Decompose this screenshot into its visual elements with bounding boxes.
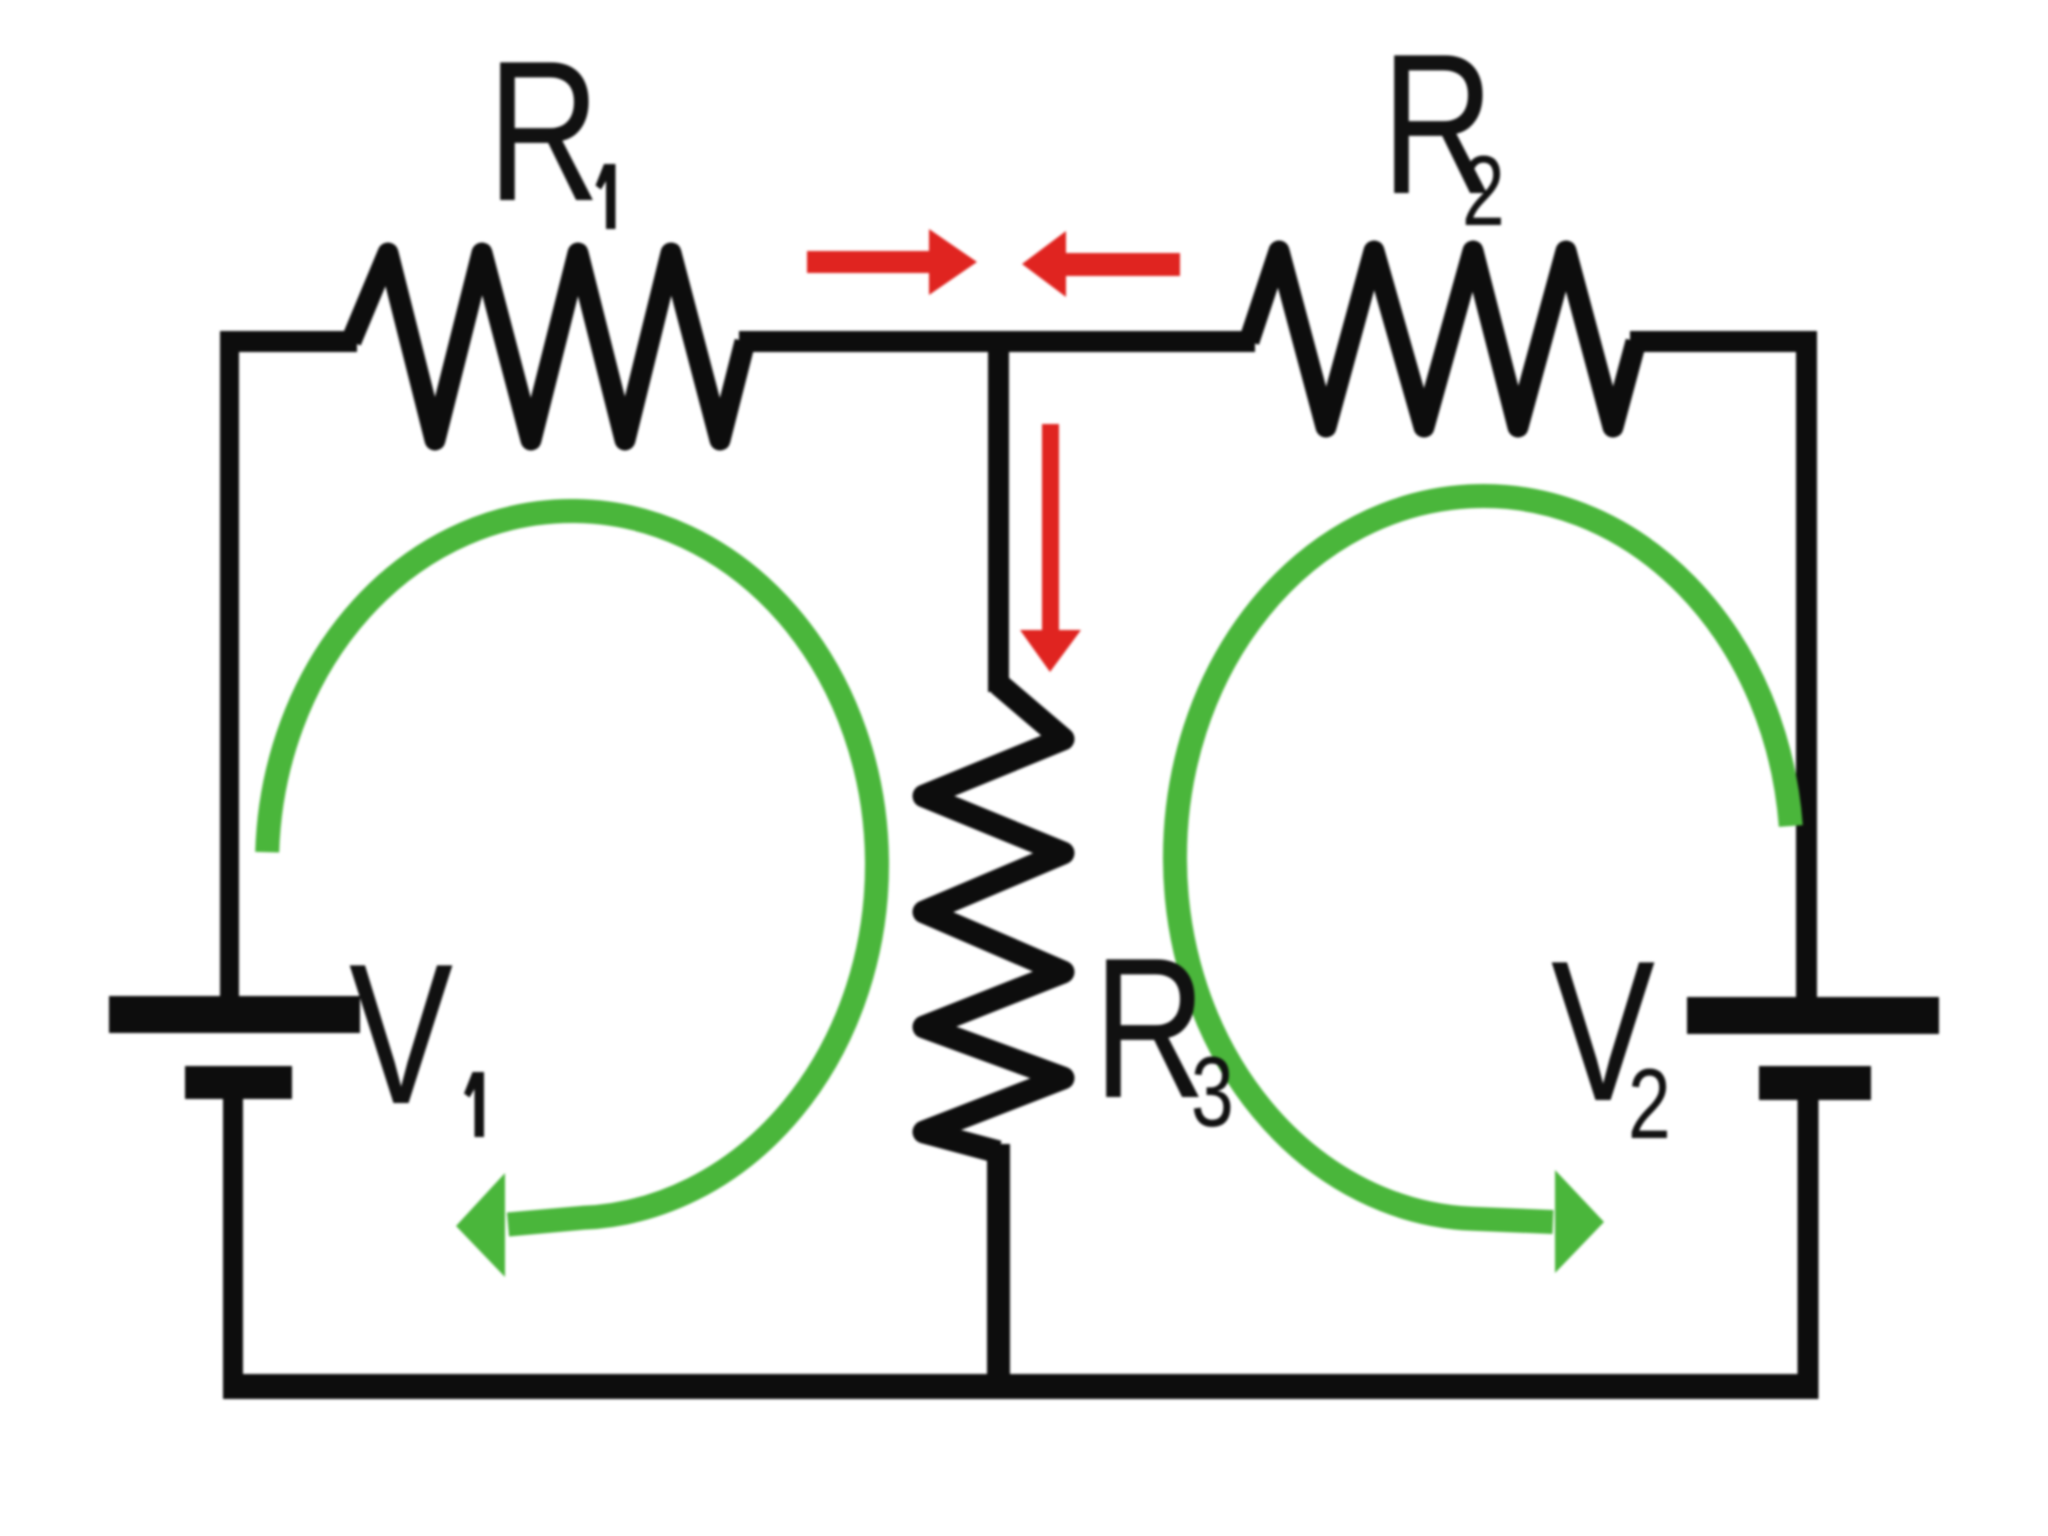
svg-text:2: 2 bbox=[1628, 1049, 1671, 1159]
svg-text:R: R bbox=[487, 20, 600, 243]
wire top-right segment bbox=[1630, 331, 1817, 997]
battery V2 short plate bbox=[1759, 1066, 1871, 1100]
green mesh current loop 1 (clockwise) bbox=[267, 511, 877, 1224]
label V1 bbox=[349, 923, 453, 1146]
label V2 bbox=[1551, 920, 1655, 1143]
wire left side upper bbox=[220, 331, 239, 997]
wire bottom bbox=[226, 1374, 1818, 1399]
battery V1 long plate bbox=[109, 996, 360, 1033]
wire middle node vertical lower bbox=[987, 1144, 1010, 1390]
resistor R1 bbox=[351, 253, 745, 440]
green loop 2 arrowhead bbox=[1555, 1170, 1604, 1273]
resistor R2 bbox=[1249, 251, 1636, 427]
svg-text:3: 3 bbox=[1191, 1037, 1234, 1147]
svg-text:V: V bbox=[349, 923, 453, 1146]
label R1 bbox=[487, 20, 600, 243]
wire middle node vertical upper bbox=[988, 342, 1009, 693]
battery V1 short plate bbox=[185, 1066, 292, 1099]
red current arrow left (into node) bbox=[1066, 253, 1180, 276]
wire top-middle segment (R1 to R2 through node) bbox=[739, 331, 1255, 352]
wire top-left segment bbox=[220, 331, 357, 352]
wire right side lower bbox=[1798, 1100, 1819, 1399]
wire left side lower bbox=[223, 1099, 243, 1399]
label R3 bbox=[1093, 917, 1206, 1140]
green loop 1 arrowhead bbox=[456, 1173, 505, 1277]
label R2 bbox=[1381, 13, 1494, 236]
battery V2 long plate bbox=[1687, 997, 1939, 1034]
red current arrow down (through R3) bbox=[1042, 424, 1059, 631]
svg-text:R: R bbox=[1093, 917, 1206, 1140]
green mesh current loop 2 (counterclockwise) bbox=[1175, 496, 1791, 1222]
red current arrow right (into node) bbox=[807, 251, 929, 273]
svg-text:2: 2 bbox=[1462, 136, 1505, 246]
resistor R3 bbox=[924, 684, 1063, 1152]
